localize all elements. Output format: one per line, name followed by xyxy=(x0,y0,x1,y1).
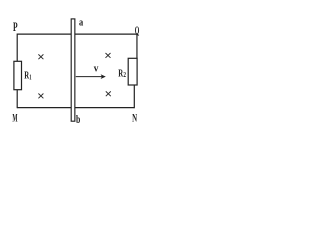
svg-text:1: 1 xyxy=(29,72,31,81)
rod ab (moving conductor) xyxy=(71,19,75,121)
svg-text:P: P xyxy=(13,20,18,34)
field cross bottom-right xyxy=(106,91,111,96)
field cross top-right xyxy=(106,53,111,58)
arrow v (velocity of rod) xyxy=(76,74,106,79)
wire R1 to M xyxy=(16,90,18,109)
svg-text:b: b xyxy=(76,114,80,126)
svg-text:a: a xyxy=(79,17,84,29)
field cross top-left xyxy=(38,54,43,59)
label R2 xyxy=(118,67,126,79)
wire bottom rail M-N xyxy=(17,107,134,109)
svg-text:N: N xyxy=(132,113,137,125)
svg-text:Q: Q xyxy=(135,25,140,37)
wire top rail P-Q xyxy=(17,33,137,35)
label R1 xyxy=(24,70,31,82)
svg-text:v: v xyxy=(94,64,99,75)
resistor R1 xyxy=(14,61,22,89)
svg-text:2: 2 xyxy=(123,70,126,79)
wire right Q to R2 xyxy=(136,34,138,59)
field cross bottom-left xyxy=(38,94,43,99)
wire R2 to N xyxy=(133,85,135,108)
wire left P to R1 xyxy=(16,34,18,62)
svg-text:M: M xyxy=(12,111,17,125)
resistor R2 xyxy=(128,58,137,85)
